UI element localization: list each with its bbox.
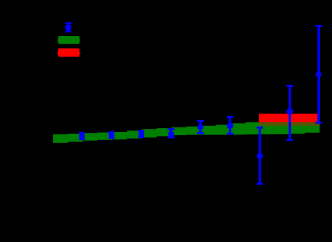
data point 6 [227, 117, 233, 134]
legend green box [58, 36, 79, 44]
legend red box [58, 48, 79, 56]
data point 1 [79, 133, 85, 139]
data point 2 [109, 132, 115, 138]
prediction band (red) [259, 114, 319, 122]
legend data marker [65, 23, 71, 31]
fit band (green) [53, 122, 320, 143]
data point 3 [138, 131, 144, 137]
data point 5 [197, 121, 204, 134]
data point 9 [315, 26, 322, 123]
data point 7 [257, 128, 263, 184]
data point 8 [286, 86, 293, 140]
data point 4 [168, 129, 175, 137]
